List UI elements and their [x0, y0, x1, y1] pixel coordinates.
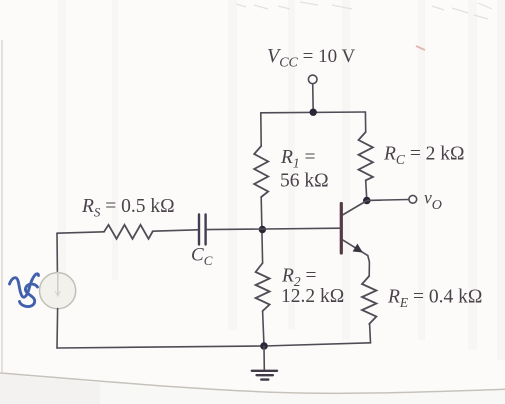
- label VCC = 10 V: [267, 45, 356, 71]
- svg-text:12.2 kΩ: 12.2 kΩ: [281, 286, 344, 307]
- label RE value: [387, 287, 482, 311]
- wire: RC bottom lead to collector node: [366, 180, 367, 200]
- label RC value: [383, 144, 465, 168]
- node: ground junction: [260, 342, 268, 350]
- page edge line at bottom: [0, 373, 505, 393]
- label R1 value: [280, 147, 329, 192]
- wire: top rail: [261, 111, 366, 114]
- ground: [252, 371, 277, 380]
- resistor R1: [254, 146, 268, 197]
- wire: ground stub: [263, 346, 265, 370]
- resistor RS: [104, 225, 153, 239]
- wire: RE bottom lead: [369, 324, 372, 343]
- wire: emitter lead down: [368, 256, 370, 276]
- faint scan smudges (decorative): [236, 2, 492, 19]
- node: collector junction: [363, 197, 371, 205]
- wire: left rail upper: [56, 233, 58, 272]
- wire: Vcc stub: [312, 84, 315, 113]
- resistor RE: [362, 276, 376, 324]
- wire: RS to capacitor: [153, 230, 199, 231]
- node: top rail junction: [310, 109, 317, 116]
- node: base junction: [259, 226, 266, 233]
- page left edge shading (decorative): [1, 40, 3, 372]
- wire: capacitor to base node: [207, 228, 340, 229]
- wire: RC top lead: [364, 112, 366, 132]
- wire: left rail lower: [56, 309, 59, 348]
- transistor Q1 collector stroke: [343, 201, 367, 215]
- svg-text:RC = 2 kΩ: RC = 2 kΩ: [383, 144, 465, 168]
- terminal Vcc: [308, 75, 317, 84]
- wire: R2 bottom lead: [263, 311, 264, 346]
- transistor Q1 base bar: [340, 204, 343, 254]
- transistor Q1 emitter stroke: [343, 240, 368, 256]
- source VS inner mark: [57, 273, 59, 295]
- resistor R2: [256, 263, 270, 311]
- transistor Q1 emitter arrow: [353, 244, 363, 253]
- wire: source to RS: [57, 232, 104, 233]
- label RS value: [81, 196, 175, 220]
- handwritten vS annotation: [10, 274, 39, 307]
- resistor RC: [359, 132, 373, 180]
- wire: R1 bottom to base node and to R2: [261, 197, 262, 263]
- source VS circle: [40, 273, 76, 309]
- wire: bottom rail: [57, 343, 371, 348]
- capacitor CC: [199, 215, 206, 245]
- wire: output lead: [367, 199, 409, 202]
- wire: R1 top lead: [260, 113, 262, 146]
- label R2 value: [281, 266, 344, 308]
- terminal vO: [409, 195, 417, 203]
- svg-text:56 kΩ: 56 kΩ: [280, 171, 329, 192]
